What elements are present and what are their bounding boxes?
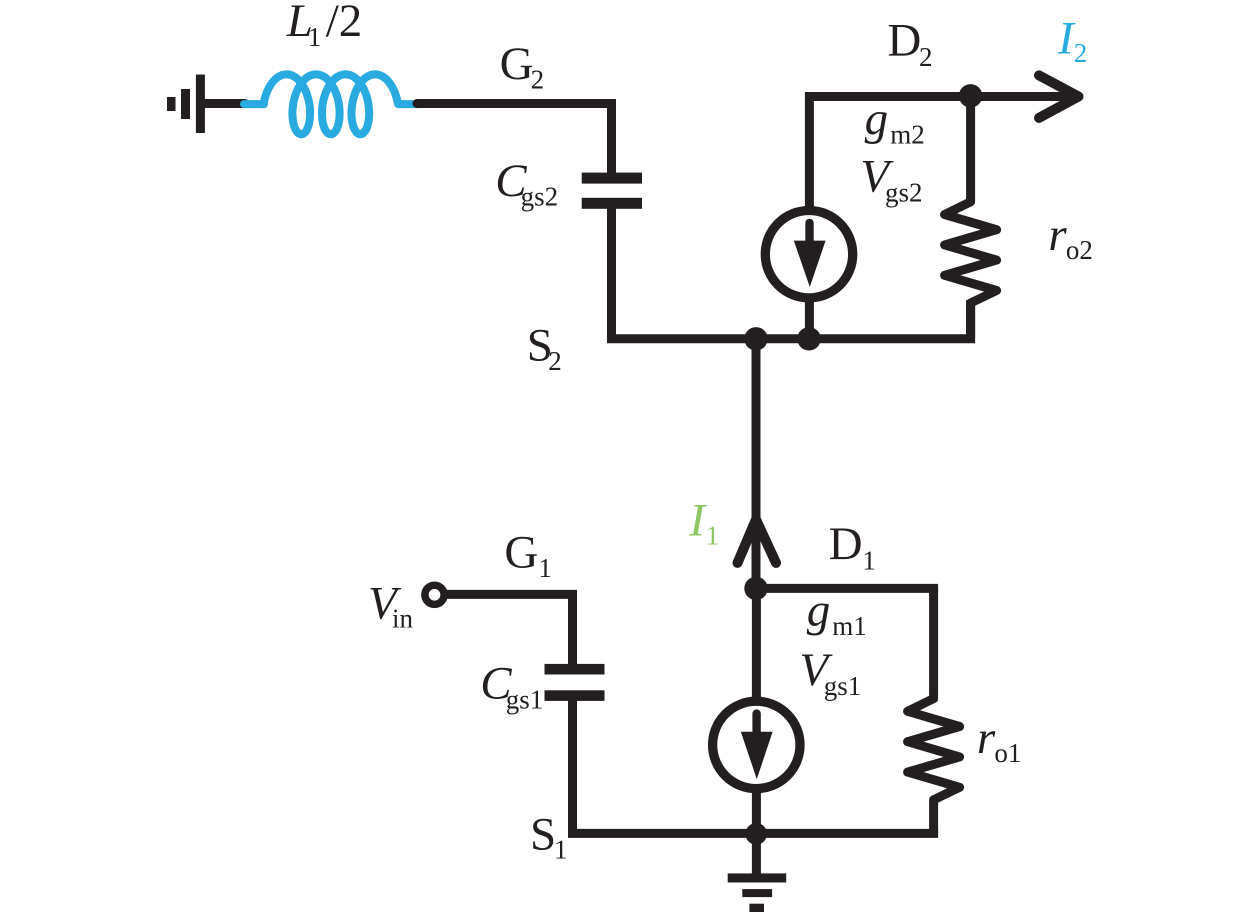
label ro2 [1048, 209, 1093, 265]
svg-text:o2: o2 [1066, 235, 1093, 265]
svg-text:o1: o1 [994, 738, 1021, 768]
svg-text:g: g [865, 93, 889, 145]
svg-text:I: I [688, 495, 707, 547]
svg-text:1: 1 [706, 520, 720, 550]
label gm1 [807, 584, 867, 641]
label ro1 [977, 712, 1022, 768]
wire: current source to S2 rail [805, 296, 814, 339]
svg-text:2: 2 [548, 346, 562, 376]
resistor ro2 [945, 97, 997, 339]
svg-text:D: D [887, 14, 921, 66]
svg-text:gs2: gs2 [885, 177, 923, 207]
node dot S2-right [797, 327, 820, 350]
label Vin [368, 578, 414, 634]
svg-text:gs1: gs1 [824, 671, 862, 701]
svg-text:gs1: gs1 [506, 684, 544, 714]
label Cgs2 [495, 155, 558, 212]
label S2 [527, 319, 562, 376]
svg-text:1: 1 [308, 22, 322, 52]
wire: current source 1 to S1 rail [752, 787, 761, 833]
svg-text:g: g [807, 584, 831, 636]
ground (input side, left) [167, 75, 205, 134]
wire: capacitor to S2 rail and up to resistor bottom [612, 207, 971, 339]
label D1 [829, 518, 876, 575]
svg-text:S: S [530, 808, 556, 860]
wire: D2 top rail [809, 97, 970, 211]
wire: D1 to current source 1 [752, 588, 761, 700]
wire: S2 to D1 (cascode middle) [752, 339, 761, 589]
node dot S2-left [744, 327, 767, 350]
label Cgs1 [480, 658, 543, 715]
svg-text:m1: m1 [832, 611, 867, 641]
wire: inductor to G2 corner down to capacitor [417, 104, 612, 175]
svg-text:G: G [504, 527, 538, 579]
label gm2 [865, 93, 925, 149]
label L1/2 [286, 0, 363, 52]
label G1 [504, 527, 552, 583]
svg-text:r: r [1048, 209, 1067, 261]
arrowhead I1 [738, 520, 777, 563]
svg-text:2: 2 [1074, 38, 1088, 68]
svg-text:m2: m2 [890, 119, 925, 149]
svg-text:D: D [829, 518, 863, 570]
wire: Vin to G1 corner down to capacitor [446, 594, 573, 666]
svg-text:2: 2 [919, 42, 933, 72]
node dot D1 [744, 577, 767, 600]
label D2 [887, 14, 932, 72]
svg-text:1: 1 [862, 545, 876, 575]
svg-text:r: r [977, 712, 996, 764]
svg-text:/2: /2 [326, 0, 363, 47]
label I1 [688, 495, 719, 551]
capacitor Cgs1 [545, 664, 605, 701]
label I2 [1057, 12, 1087, 67]
label S1 [530, 808, 568, 864]
label Vgs2 [860, 150, 922, 207]
node dot D2 [959, 84, 982, 107]
arrow I2 (output current) [971, 75, 1079, 118]
ground (bottom) [728, 834, 787, 912]
label Vgs1 [799, 644, 861, 701]
svg-text:1: 1 [554, 835, 568, 865]
current source gm2 Vgs2 [765, 211, 852, 298]
wire: D1 top rail [756, 584, 938, 593]
svg-text:2: 2 [531, 64, 545, 94]
wire: capacitor to S1 rail [573, 699, 939, 833]
svg-text:gs2: gs2 [521, 182, 559, 212]
label G2 [500, 38, 544, 94]
current source gm1 Vgs1 [713, 701, 800, 788]
capacitor Cgs2 [582, 173, 642, 209]
resistor ro1 [908, 588, 960, 833]
svg-text:1: 1 [538, 553, 552, 583]
svg-text:in: in [392, 603, 414, 633]
inductor L1/2 [244, 74, 420, 134]
svg-text:G: G [500, 38, 534, 90]
terminal Vin [425, 585, 444, 604]
node dot S1 [745, 823, 767, 845]
wire: ground to inductor [205, 99, 245, 108]
